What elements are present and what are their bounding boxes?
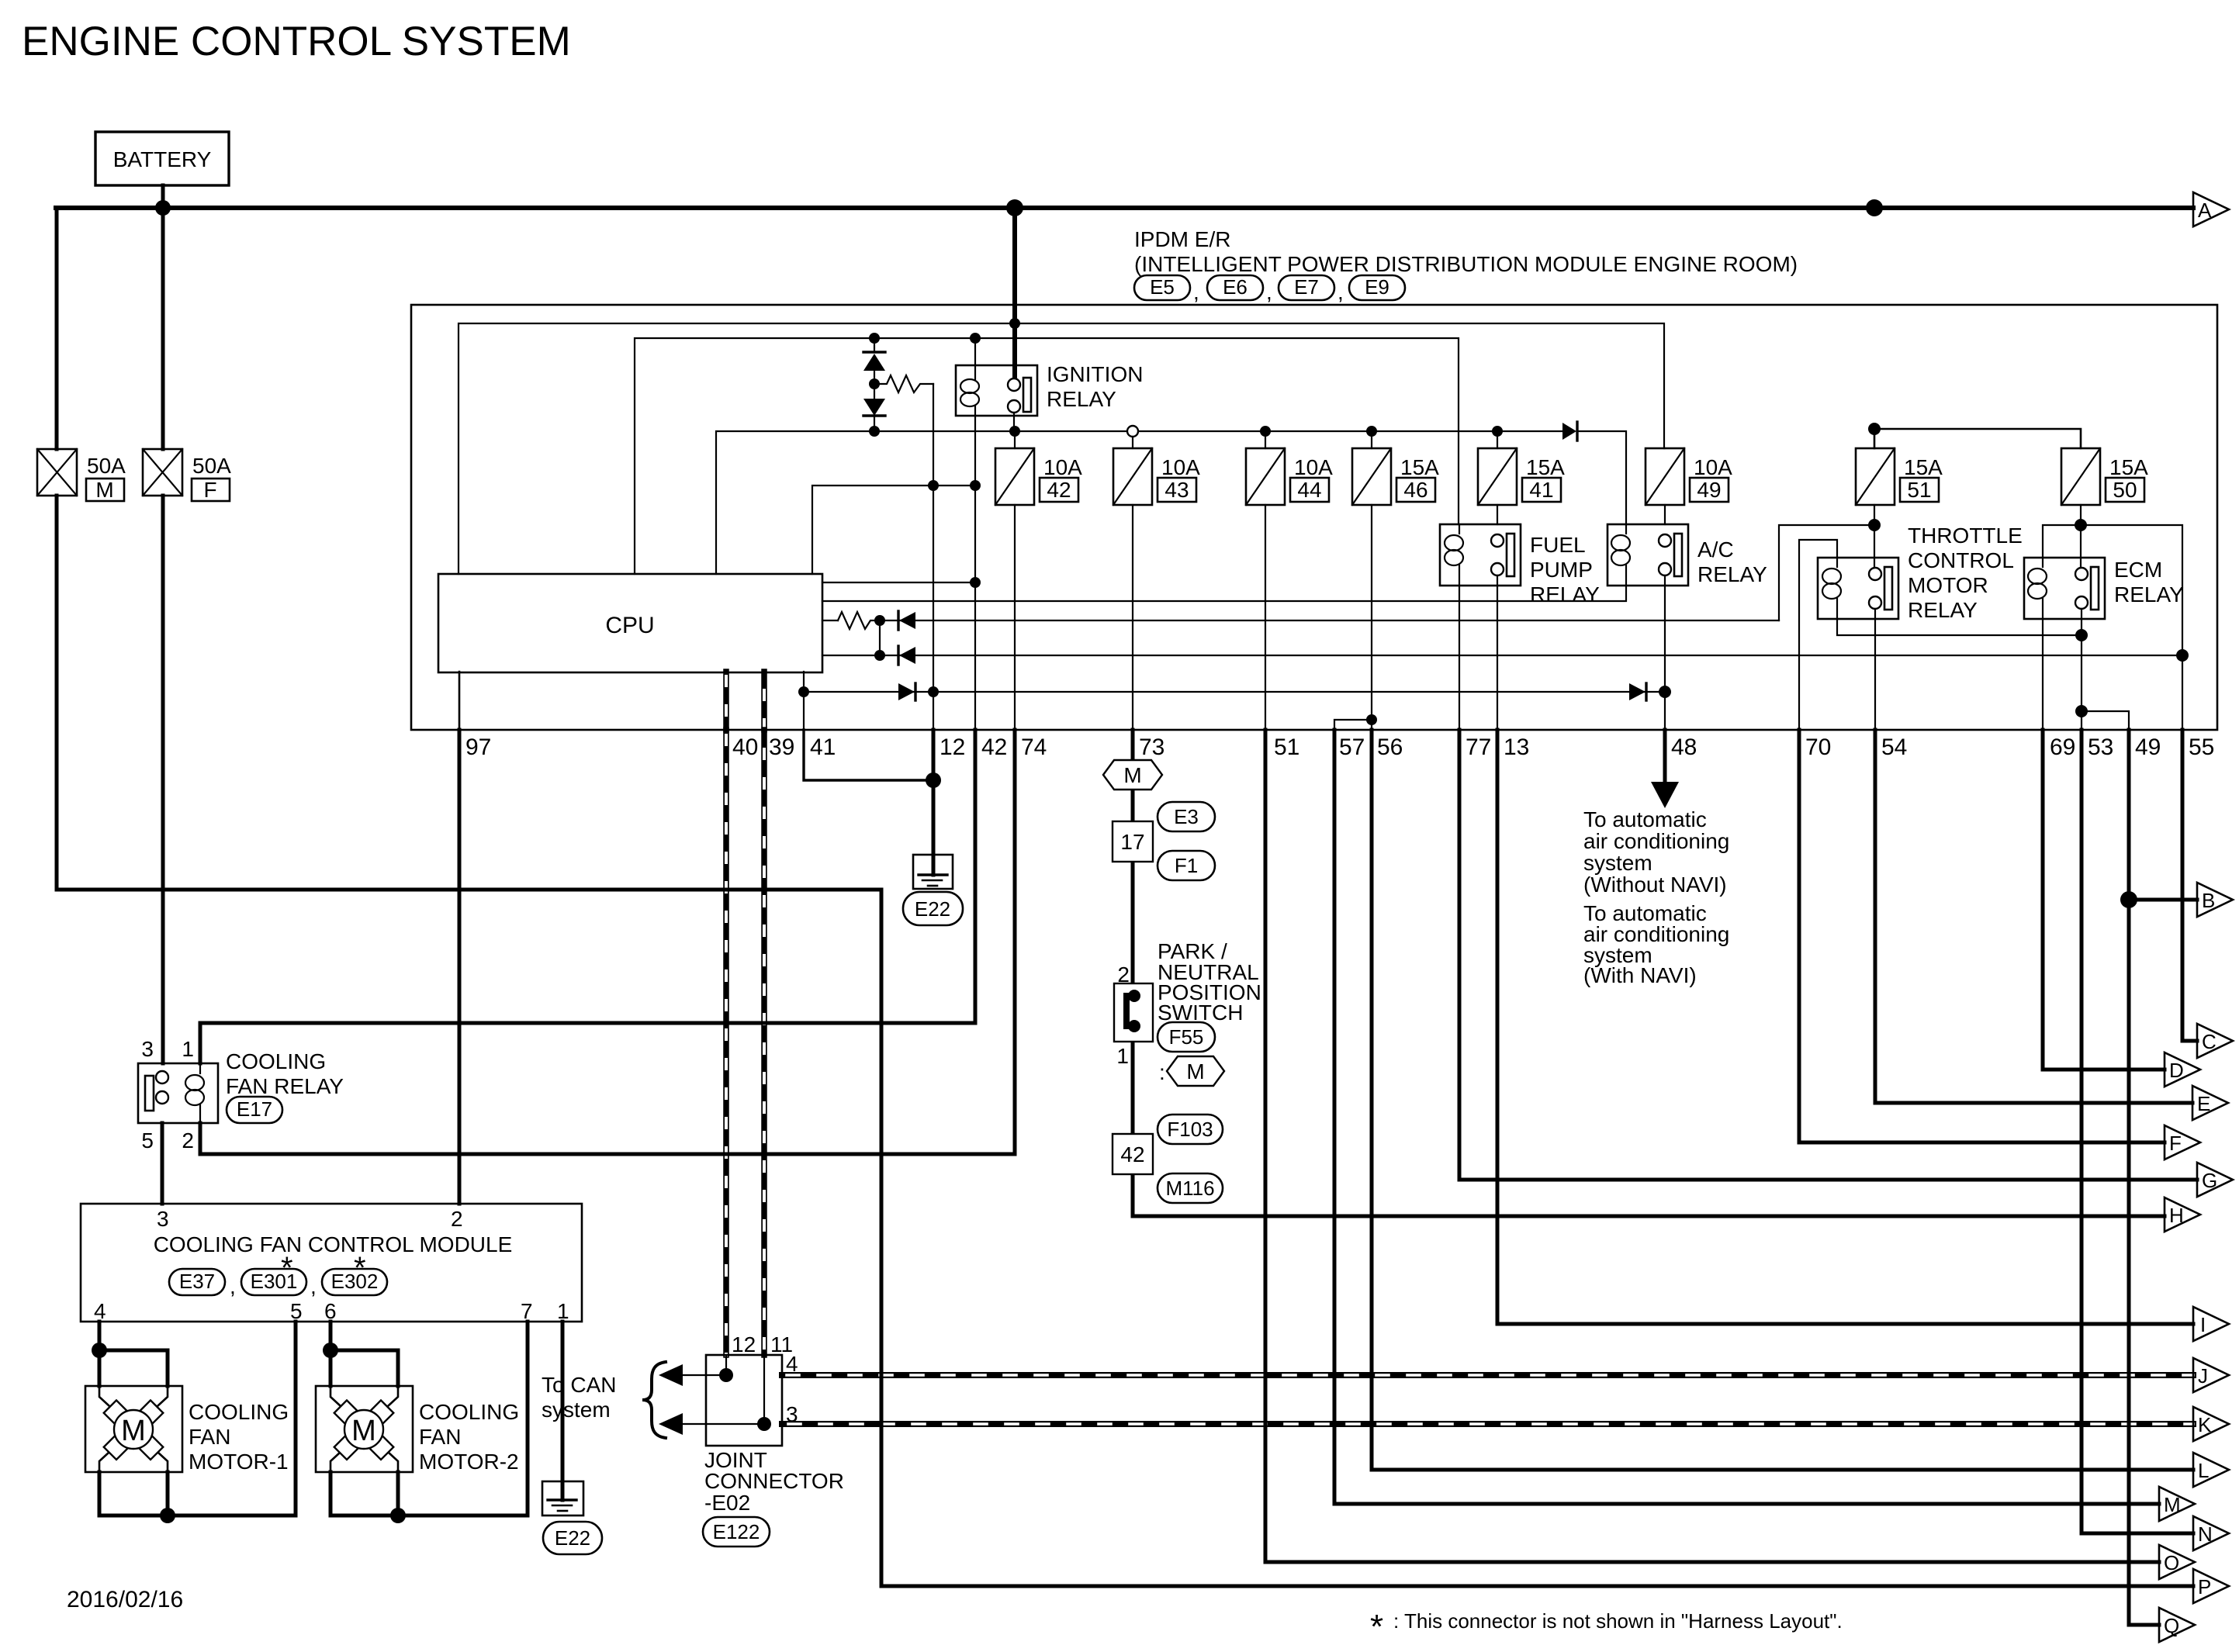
node pin 48 junction: [1659, 686, 1671, 698]
wire battery M to arrow P: [57, 496, 2193, 1586]
svg-text:10A: 10A: [1161, 455, 1200, 479]
cooling fan motor 1: [85, 1386, 182, 1515]
svg-text:48: 48: [1671, 734, 1697, 760]
svg-text:50A: 50A: [192, 454, 231, 478]
node link lower junction: [874, 650, 885, 661]
svg-text:,: ,: [1338, 280, 1344, 304]
svg-text:15A: 15A: [2109, 455, 2148, 479]
node bus junction fuse 51/50 feed: [1866, 199, 1883, 216]
svg-text:E22: E22: [915, 897, 950, 921]
svg-text:74: 74: [1021, 734, 1047, 760]
svg-text:(INTELLIGENT POWER DISTRIBUTIO: (INTELLIGENT POWER DISTRIBUTION MODULE E…: [1134, 252, 1798, 276]
svg-text:M: M: [1186, 1059, 1204, 1083]
svg-text:2: 2: [1117, 963, 1130, 987]
svg-text:MOTOR-2: MOTOR-2: [419, 1450, 519, 1474]
wire throttle coil feed from pin 70: [1799, 540, 1837, 730]
connector E22: [903, 892, 963, 925]
svg-text:2: 2: [451, 1207, 463, 1231]
wire fuse 50 out: [2080, 505, 2082, 572]
wire pin 41 to ground link: [804, 730, 933, 780]
wire battery F to cooling fan relay pin 3: [161, 208, 165, 449]
svg-text:*: *: [281, 1251, 293, 1285]
svg-text:51: 51: [1907, 478, 1931, 502]
svg-text:50: 50: [2113, 478, 2137, 502]
svg-text:10A: 10A: [1694, 455, 1732, 479]
svg-text:E5: E5: [1150, 275, 1175, 299]
connector E302: [322, 1269, 387, 1295]
svg-text:44: 44: [1297, 478, 1321, 502]
ignition relay E (box): [956, 338, 1143, 730]
battery bus wire: [56, 206, 2193, 210]
wire ECM contact to pin 53: [2081, 609, 2082, 730]
arrow B: [2197, 883, 2233, 917]
svg-text:1: 1: [557, 1299, 569, 1323]
svg-text:RELAY: RELAY: [1047, 387, 1116, 411]
wire pin 73 chain: [1131, 730, 1135, 1216]
wire pin 97 to module pin 2: [458, 730, 462, 1204]
node motor 1 feed: [92, 1343, 107, 1358]
svg-text:FAN: FAN: [189, 1425, 230, 1449]
svg-text:F: F: [2169, 1132, 2182, 1155]
wire A/C coil return to CPU: [822, 586, 1626, 601]
svg-text:: This connector is not shown: : This connector is not shown in "Harnes…: [1393, 1609, 1843, 1633]
wire CPU to wire 55 line: [822, 655, 2182, 656]
wire fuse 49 feed from W1: [1664, 448, 1665, 449]
CAN wire pin 39 to joint connector pin 11: [761, 730, 767, 1355]
wire throttle coil return: [1837, 619, 2082, 635]
connector 42 (box): [1113, 1134, 1153, 1174]
svg-text:E3: E3: [1174, 805, 1199, 828]
wire ignition relay battery feed: [1012, 208, 1017, 378]
svg-text:E7: E7: [1294, 275, 1319, 299]
wire module pin 4 to motor 1: [98, 1322, 102, 1386]
node W1 battery tap: [1009, 318, 1020, 329]
wire W1 power branch: [459, 323, 1664, 574]
wire pin 49 down: [2127, 730, 2131, 1625]
svg-text:53: 53: [2088, 734, 2113, 760]
svg-text:15A: 15A: [1904, 455, 1943, 479]
wire battery to bus: [161, 185, 165, 208]
arrow P: [2193, 1569, 2229, 1603]
svg-text:54: 54: [1881, 734, 1907, 760]
wire link to fuse 50: [1874, 429, 2081, 448]
CAN wire joint pin 4 to arrow J: [782, 1372, 2193, 1378]
wire joint pin 11 internal: [763, 1355, 765, 1424]
svg-text:M116: M116: [1165, 1177, 1214, 1200]
node wire 55 tap: [2176, 649, 2189, 662]
svg-text:CPU: CPU: [605, 613, 654, 638]
wire pin 54 to arrow E: [1875, 730, 2192, 1103]
svg-text:F: F: [203, 478, 216, 502]
label JOINT CONNECTOR -E02: [704, 1448, 844, 1515]
wire link between CPU lines: [879, 620, 881, 655]
svg-text:IPDM E/R: IPDM E/R: [1134, 227, 1230, 251]
svg-text:2: 2: [182, 1128, 194, 1153]
svg-text:51: 51: [1274, 734, 1299, 760]
svg-text:FUEL: FUEL: [1530, 533, 1586, 557]
svg-text:N: N: [2198, 1522, 2213, 1546]
svg-text:CONTROL: CONTROL: [1908, 548, 2014, 572]
connector M116: [1158, 1173, 1223, 1203]
wire fuse 44 out to pin 51: [1265, 505, 1266, 730]
wire fuse 41 to fuel pump relay contact: [1497, 505, 1498, 524]
svg-text:ENGINE CONTROL SYSTEM: ENGINE CONTROL SYSTEM: [22, 19, 571, 64]
svg-text:D: D: [2169, 1059, 2184, 1082]
svg-text:E122: E122: [713, 1520, 760, 1543]
svg-text:F103: F103: [1167, 1118, 1213, 1141]
wire battery M redraw over CAN: [698, 888, 791, 892]
svg-text:E9: E9: [1365, 275, 1389, 299]
wire CPU to ignition coil drive: [822, 582, 975, 583]
diode chain lower diode: [863, 399, 885, 431]
ECM relay (box): [2024, 558, 2184, 619]
svg-text:G: G: [2202, 1169, 2217, 1192]
svg-text:B: B: [2202, 889, 2215, 912]
node rail diode chain: [869, 426, 880, 437]
node fuse 51 output junction: [1868, 519, 1881, 531]
svg-text:(Without NAVI): (Without NAVI): [1583, 873, 1727, 897]
svg-text:12: 12: [940, 734, 965, 760]
svg-text:41: 41: [810, 734, 836, 760]
svg-text:system: system: [542, 1398, 611, 1422]
arrow Q: [2159, 1608, 2195, 1642]
node fuse 46 branch: [1366, 714, 1377, 725]
connector E37: [169, 1269, 225, 1295]
svg-text:F55: F55: [1169, 1025, 1204, 1049]
node joint pin 11: [757, 1417, 771, 1431]
svg-text:17: 17: [1120, 830, 1144, 854]
svg-text:L: L: [2198, 1459, 2209, 1482]
arrow C: [2197, 1024, 2233, 1058]
wire branch to pin 57: [1334, 720, 1372, 730]
node rail fuse 41: [1492, 426, 1503, 437]
svg-text:M: M: [121, 1415, 146, 1447]
label COOLING FAN MOTOR-1: [189, 1400, 289, 1474]
svg-text:49: 49: [1697, 478, 1721, 502]
wire to CAN system upper arrow: [659, 1364, 726, 1386]
wire pin 56 to arrow L: [1372, 730, 2193, 1470]
fuse 50 15A: [2061, 448, 2148, 505]
connector F55: [1158, 1022, 1215, 1052]
node fuse 51 feed: [1868, 423, 1881, 435]
svg-text:MOTOR-1: MOTOR-1: [189, 1450, 289, 1474]
svg-text:1: 1: [1116, 1044, 1129, 1068]
node pin 49 branch junction: [2075, 705, 2088, 717]
svg-text:41: 41: [1529, 478, 1553, 502]
svg-text:5: 5: [141, 1128, 154, 1153]
wire fuel pump contact to pin 13: [1497, 575, 1498, 730]
svg-text:COOLING: COOLING: [419, 1400, 519, 1424]
wire module pin 1 to ground: [561, 1322, 565, 1500]
wire A/C contact to pin 48: [1664, 575, 1666, 730]
node resistor column tap: [928, 480, 939, 491]
svg-text:RELAY: RELAY: [1697, 562, 1767, 586]
node coil drive junction: [970, 577, 981, 588]
svg-text:IGNITION: IGNITION: [1047, 362, 1143, 386]
cooling fan motor 2: [316, 1386, 413, 1515]
label COOLING FAN RELAY: [226, 1049, 344, 1098]
node bus junction ignition feed: [1006, 199, 1023, 216]
park/neutral position switch: [1114, 939, 1261, 1068]
connector E22 (module ground): [543, 1522, 602, 1554]
svg-text:E17: E17: [237, 1097, 272, 1121]
wire pin 42 to cooling fan relay pin 1: [200, 730, 975, 1063]
svg-text:RELAY: RELAY: [2114, 582, 2184, 607]
svg-text:42: 42: [981, 734, 1007, 760]
CAN wire pin 40 to joint connector pin 12: [723, 730, 729, 1355]
fuse 44 10A: [1246, 431, 1333, 505]
node W2 diode chain tap: [869, 333, 880, 344]
wire fuse rail: [716, 431, 1562, 574]
IPDM E/R box: [411, 305, 2217, 730]
cooling fan relay E17 (box): [138, 1063, 218, 1123]
wire joint pin 12 internal: [725, 1355, 727, 1375]
svg-text:BATTERY: BATTERY: [113, 147, 212, 171]
svg-text:3: 3: [786, 1402, 798, 1426]
svg-text:CONNECTOR: CONNECTOR: [704, 1469, 844, 1493]
diode on wire 55 line: [898, 646, 915, 665]
wire pin 12 to ground E22: [932, 730, 936, 875]
wire junction to pin 55 branch: [2081, 525, 2182, 730]
svg-text:56: 56: [1377, 734, 1403, 760]
svg-text:4: 4: [786, 1352, 798, 1376]
svg-text:70: 70: [1805, 734, 1831, 760]
wire to arrow B: [2129, 898, 2197, 902]
wire motor 1 ground bus to module pin 5: [99, 1322, 296, 1515]
svg-text:,: ,: [1266, 280, 1272, 304]
wire junction to ECM coil: [2043, 525, 2081, 558]
svg-text:Q: Q: [2164, 1614, 2179, 1637]
arrow H: [2165, 1198, 2200, 1232]
wire pin 73 chain to arrow H: [1133, 1215, 2165, 1218]
wire pin 57 to arrow M: [1334, 730, 2159, 1504]
label to automatic air conditioning (without NAVI): [1583, 807, 1729, 897]
wire resistor column: [933, 384, 934, 730]
wire fuse 46 out to pin 56: [1371, 505, 1372, 730]
svg-text:69: 69: [2050, 734, 2075, 760]
wire fuse 51 out: [1874, 505, 1875, 572]
svg-text:49: 49: [2135, 734, 2161, 760]
ground symbol E22: [913, 855, 953, 889]
svg-text:,: ,: [310, 1274, 317, 1298]
diode chain upper diode: [863, 338, 885, 399]
svg-text:(With NAVI): (With NAVI): [1583, 963, 1697, 987]
svg-text:COOLING FAN CONTROL MODULE: COOLING FAN CONTROL MODULE: [154, 1232, 513, 1256]
arrow E: [2192, 1086, 2228, 1120]
svg-text:15A: 15A: [1400, 455, 1439, 479]
arrow I: [2193, 1307, 2229, 1341]
svg-text:73: 73: [1139, 734, 1164, 760]
svg-text:MOTOR: MOTOR: [1908, 573, 1988, 597]
wire fuse 43 out to pin 73: [1132, 505, 1133, 730]
svg-text:42: 42: [1120, 1142, 1144, 1166]
node diode chain mid: [869, 378, 880, 389]
node rail fuse 46: [1366, 426, 1377, 437]
node resistor column lower junction: [928, 686, 939, 697]
svg-text:97: 97: [465, 734, 491, 760]
svg-text:RELAY: RELAY: [1908, 598, 1978, 622]
svg-text:THROTTLE: THROTTLE: [1908, 524, 2023, 548]
svg-text:55: 55: [2189, 734, 2214, 760]
svg-text:46: 46: [1403, 478, 1427, 502]
label footnote: [1370, 1608, 1843, 1646]
svg-text:E6: E6: [1223, 275, 1248, 299]
wire pin 13 to arrow I: [1497, 730, 2193, 1324]
svg-text:COOLING: COOLING: [189, 1400, 289, 1424]
svg-text:M: M: [1123, 763, 1141, 787]
fuel pump relay (box): [1440, 524, 1600, 607]
svg-text:10A: 10A: [1043, 455, 1082, 479]
svg-text:7: 7: [521, 1299, 533, 1323]
node joint pin 12: [719, 1368, 733, 1382]
wire pin 53 to arrow N: [2082, 730, 2193, 1533]
ground symbol E22 (module): [542, 1481, 583, 1515]
wire fuse 42 out to pin 74: [1014, 505, 1016, 730]
node motor 1 return: [160, 1508, 175, 1523]
svg-text:-E02: -E02: [704, 1491, 750, 1515]
svg-text:M: M: [95, 478, 113, 502]
connector M (hexagon, harness): [1159, 1056, 1224, 1086]
node motor 2 feed: [323, 1343, 338, 1358]
svg-text:3: 3: [141, 1037, 154, 1061]
connector E6: [1207, 275, 1263, 300]
arrow A: [2193, 192, 2229, 226]
svg-text:6: 6: [324, 1299, 337, 1323]
svg-text:E22: E22: [555, 1526, 590, 1550]
wire pin 74 to cooling fan relay pin 2: [200, 730, 1015, 1154]
wire junction to CPU line: [1779, 525, 1874, 620]
fuse 51 15A: [1856, 448, 1943, 505]
svg-text:I: I: [2200, 1313, 2206, 1336]
arrow D: [2165, 1052, 2200, 1087]
node resistor/diode junction: [874, 615, 885, 626]
svg-text:SWITCH: SWITCH: [1158, 1001, 1243, 1025]
arrow K: [2193, 1407, 2229, 1441]
svg-text:E37: E37: [179, 1270, 215, 1293]
connector 17 (box): [1113, 821, 1153, 862]
svg-text:*: *: [354, 1251, 366, 1285]
node fuse 50 output junction: [2075, 519, 2087, 531]
svg-text:13: 13: [1504, 734, 1529, 760]
fusible link F 50A: [143, 449, 231, 502]
wire pin 41 to pin 48 line: [804, 691, 1665, 693]
connector E301: [241, 1269, 306, 1295]
wire module pin 6 to motor 2: [329, 1322, 333, 1386]
diode near CPU on pin48 line: [898, 683, 915, 700]
connector F1: [1158, 851, 1215, 880]
node arrow B junction: [2120, 891, 2137, 908]
diode on fuse rail: [1562, 422, 1577, 441]
wire pin 55 to arrow C: [2182, 730, 2197, 1041]
label cooling fan relay pins: [141, 1037, 194, 1153]
wire W2 power branch: [635, 338, 1459, 574]
wire motor 2 ground bus to module pin 7: [330, 1322, 528, 1515]
svg-text:77: 77: [1466, 734, 1491, 760]
label To CAN system: [542, 1362, 666, 1438]
node rail ignition contact: [1009, 426, 1020, 437]
svg-text:system: system: [1583, 851, 1652, 875]
wire ECM coil to pin 69: [2042, 619, 2043, 730]
svg-text:A/C: A/C: [1697, 537, 1734, 562]
svg-text:39: 39: [769, 734, 794, 760]
svg-text:FAN RELAY: FAN RELAY: [226, 1074, 344, 1098]
connector E9: [1349, 275, 1405, 300]
node rail fuse 44: [1260, 426, 1271, 437]
node W2 ignition coil tap: [970, 333, 981, 344]
svg-text:5: 5: [290, 1299, 303, 1323]
svg-text:40: 40: [732, 734, 758, 760]
node ignition coil tap: [970, 480, 981, 491]
svg-text:3: 3: [157, 1207, 169, 1231]
connector E17: [227, 1097, 282, 1123]
svg-text:A: A: [2198, 199, 2212, 222]
svg-text:RELAY: RELAY: [1530, 582, 1600, 607]
connector F103: [1158, 1115, 1223, 1144]
wire pin 77 to arrow G: [1459, 730, 2197, 1180]
svg-text:2016/02/16: 2016/02/16: [67, 1587, 183, 1612]
svg-text:H: H: [2169, 1204, 2184, 1227]
svg-text:J: J: [2198, 1364, 2208, 1388]
svg-text:K: K: [2198, 1413, 2212, 1436]
diode on throttle feed line: [898, 611, 915, 630]
label to automatic air conditioning (with NAVI): [1583, 901, 1729, 987]
svg-text:,: ,: [1193, 280, 1199, 304]
svg-text:1: 1: [182, 1037, 194, 1061]
diode near pin 48: [1629, 683, 1646, 700]
svg-text:4: 4: [94, 1299, 106, 1323]
wire pin 49 to arrow Q: [2129, 1623, 2159, 1627]
svg-text:E: E: [2197, 1092, 2210, 1115]
wire pin 70 to arrow F: [1799, 730, 2165, 1142]
fuse 46 15A: [1352, 431, 1439, 505]
svg-text::: :: [1159, 1060, 1165, 1084]
svg-text:,: ,: [230, 1274, 236, 1298]
pin labels under IPDM: [465, 734, 2214, 760]
fuse 41 15A: [1478, 431, 1565, 505]
svg-text:PUMP: PUMP: [1530, 558, 1593, 582]
svg-text:ECM: ECM: [2114, 558, 2162, 582]
wire branch to motor 2 right lead: [330, 1350, 398, 1386]
throttle control motor relay (box): [1818, 524, 2023, 622]
svg-text:air conditioning: air conditioning: [1583, 829, 1729, 853]
svg-text:C: C: [2202, 1030, 2217, 1053]
arrow F: [2165, 1125, 2200, 1160]
svg-text:FAN: FAN: [419, 1425, 461, 1449]
fuse 42 10A: [995, 431, 1082, 505]
svg-text:F1: F1: [1175, 854, 1198, 877]
svg-text:10A: 10A: [1294, 455, 1333, 479]
connector M (hexagon): [1103, 760, 1162, 790]
node rail fuse 43 (open): [1127, 426, 1138, 437]
wire fuel pump coil to pin 77: [1459, 586, 1460, 730]
A/C relay (box): [1607, 524, 1767, 586]
wire pin 51 to arrow O: [1265, 730, 2159, 1562]
wire CPU to ignition coil sense: [812, 486, 975, 574]
connector E5: [1134, 275, 1190, 300]
arrow G: [2197, 1163, 2233, 1197]
wire fuse M feed: [55, 208, 59, 449]
wire pin 48 to A/C system: [1663, 730, 1667, 783]
svg-text:12: 12: [732, 1332, 756, 1357]
connector E7: [1279, 275, 1334, 300]
CAN wire joint pin 3 to arrow K: [782, 1421, 2193, 1427]
wire CPU pin 97 column: [459, 672, 461, 730]
svg-text:M: M: [351, 1415, 376, 1447]
label COOLING FAN MOTOR-2: [419, 1400, 519, 1474]
label IPDM E/R: [1134, 227, 1798, 276]
wire pin 69 to arrow D: [2043, 730, 2165, 1070]
fuse 43 10A: [1113, 437, 1200, 505]
